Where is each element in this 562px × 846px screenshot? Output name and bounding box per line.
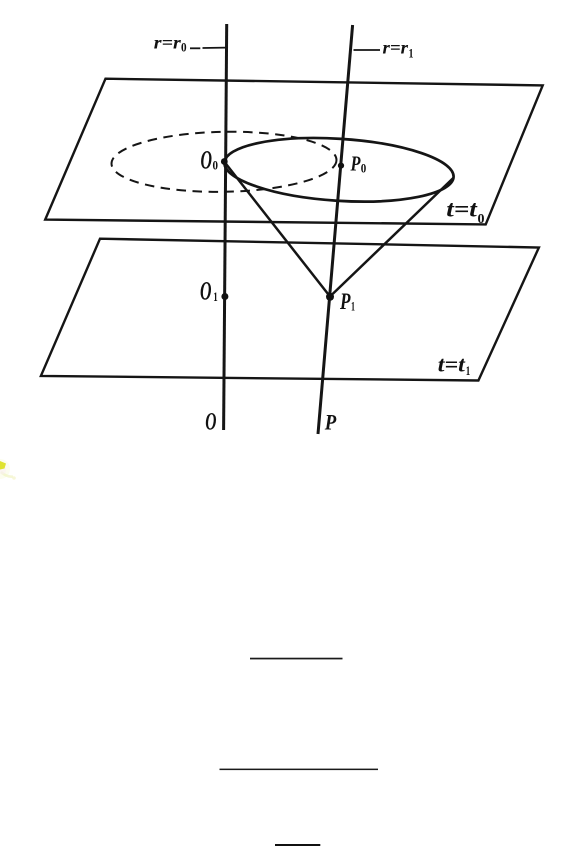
node O1 [221, 293, 228, 300]
fraction bar 1 [250, 658, 343, 660]
svg-text:1: 1 [466, 363, 471, 378]
leader line for r=r0 [190, 47, 226, 50]
label r=r0 [154, 33, 187, 55]
label t=t1 [438, 351, 471, 378]
solid ellipse (light circle through O0 around P0) [222, 132, 455, 208]
svg-text:0: 0 [213, 158, 219, 173]
yellow mark (highlighter smudge, left edge) [0, 459, 16, 480]
svg-text:O: O [200, 277, 212, 306]
svg-text:t=t: t=t [446, 196, 477, 221]
worldline O (r=r0) [224, 24, 227, 430]
label O0 [201, 146, 219, 175]
dashed ellipse (light circle centred on O) [111, 130, 337, 194]
svg-text:r=r: r=r [383, 38, 410, 58]
label P1 [339, 289, 355, 314]
svg-text:0: 0 [361, 161, 367, 176]
label r=r1 [383, 38, 414, 61]
svg-text:P: P [324, 410, 337, 435]
svg-text:0: 0 [181, 40, 187, 55]
fraction bar 2 [220, 769, 379, 771]
svg-text:1: 1 [351, 299, 355, 314]
svg-text:t=t: t=t [438, 351, 466, 376]
svg-text:O: O [205, 409, 216, 436]
svg-text:O: O [201, 146, 213, 175]
svg-text:P: P [350, 152, 361, 176]
svg-text:0: 0 [478, 212, 485, 227]
svg-text:1: 1 [409, 46, 414, 61]
label t=t0 [446, 196, 484, 226]
svg-text:P: P [339, 289, 351, 314]
svg-text:r=r: r=r [154, 33, 182, 53]
leader line for r=r1 [354, 49, 381, 51]
cone line left (O0 to P1) [225, 162, 331, 297]
cone line right (P1 to ellipse right vertex) [330, 178, 454, 297]
node P1 [326, 293, 334, 301]
label P0 [350, 152, 366, 176]
label O1 [200, 277, 218, 306]
worldline P (r=r1) [318, 25, 353, 434]
svg-text:1: 1 [213, 289, 218, 304]
upper plane t=t0 [45, 79, 543, 225]
node P0 [338, 163, 344, 169]
fraction bar 3 (bottom edge, thick) [275, 844, 320, 846]
lower plane t=t1 [41, 239, 539, 381]
node O0 [221, 158, 228, 165]
